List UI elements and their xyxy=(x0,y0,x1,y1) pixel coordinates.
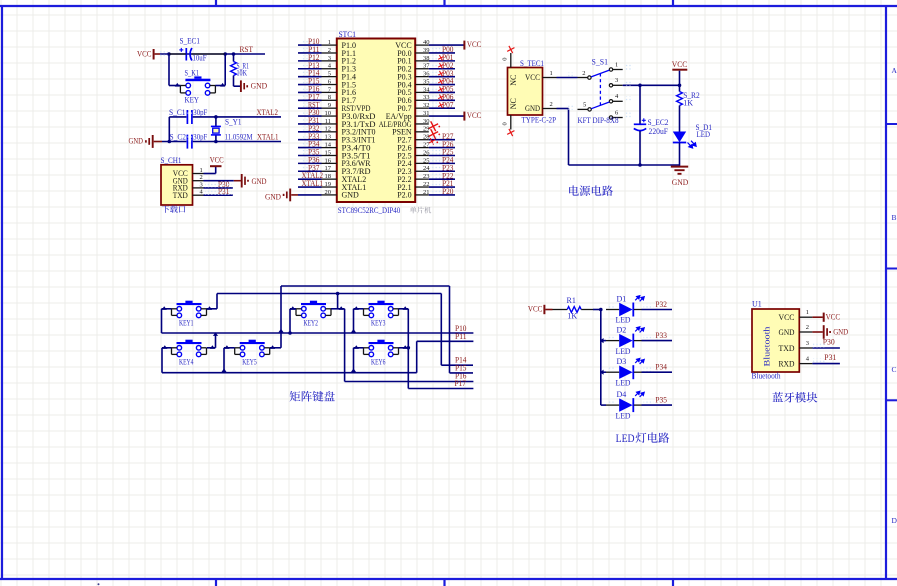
svg-text:P07: P07 xyxy=(442,100,454,109)
pin 0 stub bottom (S_TEC1) xyxy=(510,115,512,130)
svg-text:P32: P32 xyxy=(655,300,667,309)
svg-text:GND: GND xyxy=(342,191,360,200)
wire net P03 (STC1 pin 36) xyxy=(430,71,445,76)
svg-text:P31: P31 xyxy=(824,353,836,362)
pushbutton KEY4 xyxy=(177,342,202,344)
capacitor S_EC2 220uF xyxy=(639,85,641,124)
svg-text:19: 19 xyxy=(325,181,332,188)
svg-text:38: 38 xyxy=(423,55,430,62)
svg-text:S_CH1: S_CH1 xyxy=(161,156,182,165)
IC comment label (CJK) xyxy=(410,207,431,214)
svg-text:P17: P17 xyxy=(455,379,467,388)
switch lever pins 2-1 xyxy=(591,70,609,77)
wire P30 (S_CH1 pin3) xyxy=(204,187,233,189)
section label bluetooth-module (CJK) xyxy=(772,392,817,403)
svg-text:STC1: STC1 xyxy=(339,30,357,39)
svg-text:P2.0: P2.0 xyxy=(397,191,411,200)
svg-text:17: 17 xyxy=(325,165,332,172)
svg-text:12: 12 xyxy=(325,126,332,133)
wire net P15 (STC1 pin 6) xyxy=(302,79,315,84)
svg-text:GND: GND xyxy=(779,328,795,337)
pin 1 stub (S_CH1) xyxy=(193,173,204,175)
svg-text:VCC: VCC xyxy=(210,156,224,165)
pin 31 EA/Vpp (STC1 right) xyxy=(415,115,429,117)
pin 26 P2.5 (STC1 right) xyxy=(415,154,429,156)
wire LED to GND xyxy=(679,143,681,167)
svg-text:KFT DIP-8X8: KFT DIP-8X8 xyxy=(578,116,619,125)
pin 2 stub (S_CH1) xyxy=(193,180,204,182)
wire net P36 (STC1 pin 16) xyxy=(302,158,315,163)
wire net P27 (STC1 pin 28) xyxy=(430,134,445,139)
wire KEY2 left to P10 rail xyxy=(290,308,296,310)
wire net P35 (STC1 pin 15) xyxy=(302,150,315,155)
section label matrix-keyboard (CJK) xyxy=(290,391,335,402)
pin 6 stub (S_S1) xyxy=(613,117,623,119)
no-ERC marker pin 30 xyxy=(428,121,438,131)
svg-text:C: C xyxy=(892,365,897,374)
wire row2 rail riser to P11 xyxy=(416,341,418,372)
svg-text:33: 33 xyxy=(423,94,430,101)
svg-text:VCC: VCC xyxy=(137,49,152,58)
svg-text:NC: NC xyxy=(509,75,518,86)
svg-text:29: 29 xyxy=(423,126,430,133)
pin 34 P0.5 (STC1 right) xyxy=(415,91,429,93)
pin 38 P0.1 (STC1 right) xyxy=(415,60,429,62)
wire EC2 to ground rail xyxy=(639,131,641,165)
svg-text:16: 16 xyxy=(325,157,332,164)
no-ERC marker pin 35 xyxy=(438,79,444,85)
no-ERC marker pin 33 xyxy=(438,95,444,101)
svg-text:3: 3 xyxy=(615,77,618,84)
pin 3 P1.2 (STC1 left) xyxy=(322,60,337,62)
resistor R1 1K xyxy=(553,309,568,311)
wire KEY4 left to row2 rail xyxy=(162,347,172,349)
svg-text:22: 22 xyxy=(423,181,430,188)
svg-text:10K: 10K xyxy=(237,69,248,78)
svg-text:TXD: TXD xyxy=(173,191,188,200)
wire KEY3 left to P10 rail xyxy=(354,308,364,310)
svg-text:R1: R1 xyxy=(567,296,576,305)
svg-text:GND: GND xyxy=(252,177,267,186)
wire GND to caps xyxy=(162,141,186,143)
wire KEY2 right riser to rail B xyxy=(331,308,345,310)
svg-text:35: 35 xyxy=(423,78,430,85)
no-ERC marker pin 32 xyxy=(438,102,444,108)
svg-text:GND: GND xyxy=(833,328,848,337)
power port VCC (S_CH1 pin1) xyxy=(204,173,216,175)
power port GND (reset circuit) xyxy=(240,80,242,92)
svg-text:8: 8 xyxy=(328,94,331,101)
svg-text:LED: LED xyxy=(697,130,711,139)
wire S_K1 right to main xyxy=(215,85,225,87)
svg-text:15: 15 xyxy=(325,149,332,156)
svg-text:LED: LED xyxy=(616,433,635,445)
pin 22 P2.1 (STC1 right) xyxy=(415,186,429,188)
resistor S_R2 1K xyxy=(677,92,683,106)
pin 27 P2.6 (STC1 right) xyxy=(415,147,429,149)
svg-text:2: 2 xyxy=(582,70,585,77)
svg-text:2: 2 xyxy=(199,174,202,181)
wire net XTAL1 (STC1 pin 19) xyxy=(302,181,315,186)
svg-text:VCC: VCC xyxy=(826,313,841,322)
LED D2 xyxy=(601,340,606,342)
selection dot artifacts xyxy=(159,51,168,57)
power port GND (STC1 pin20) xyxy=(291,194,298,196)
pin 4 stub (S_S1) xyxy=(613,100,623,102)
wire net P32 xyxy=(644,304,654,309)
label download-port (CJK) xyxy=(162,205,186,213)
wire net P35 xyxy=(644,400,654,405)
pin 13 P3.3/INT1 (STC1 left) xyxy=(322,139,337,141)
no-ERC marker pin 37 xyxy=(438,63,444,69)
pin 35 P0.4 (STC1 right) xyxy=(415,84,429,86)
svg-text:KEY5: KEY5 xyxy=(242,357,257,366)
node junction R2 rail xyxy=(678,84,682,88)
pushbutton KEY5 xyxy=(240,342,265,344)
svg-text:32: 32 xyxy=(423,102,430,109)
wire net P30 (STC1 pin 10) xyxy=(302,110,315,115)
resistor S_R1 10K xyxy=(233,54,235,62)
svg-text:U1: U1 xyxy=(752,300,762,309)
svg-text:KEY3: KEY3 xyxy=(371,318,386,327)
wire net P10 (STC1 pin 1) xyxy=(302,40,315,45)
wire net P07 (STC1 pin 32) xyxy=(430,103,445,108)
no-ERC marker pin 29 xyxy=(428,129,438,139)
wire net P31 (STC1 pin 11) xyxy=(302,118,315,123)
pin 0 stub top (S_TEC1) xyxy=(510,53,512,68)
wire KEY4 right to P10 rail xyxy=(207,347,216,349)
wire KEY3 right to P17 riser xyxy=(399,308,409,310)
pin 11 P3.1/TxD (STC1 left) xyxy=(322,123,337,125)
svg-text:RST: RST xyxy=(240,45,254,54)
power port GND (S_CH1 pin2) xyxy=(204,180,234,182)
svg-text:P35: P35 xyxy=(655,395,667,404)
svg-text:21: 21 xyxy=(423,189,430,196)
svg-text:31: 31 xyxy=(423,110,430,117)
svg-text:GND: GND xyxy=(265,192,281,201)
wire net P31 (U1 pin4) xyxy=(812,363,840,365)
svg-text:25: 25 xyxy=(423,157,430,164)
pin 33 P0.6 (STC1 right) xyxy=(415,99,429,101)
svg-text:D: D xyxy=(892,516,897,525)
pin 2 P1.1 (STC1 left) xyxy=(322,52,337,54)
wire net P21 (STC1 pin 22) xyxy=(430,181,445,186)
svg-text:KEY2: KEY2 xyxy=(304,318,319,327)
svg-text:23: 23 xyxy=(423,173,430,180)
svg-text:D1: D1 xyxy=(617,294,627,303)
LED D4 xyxy=(601,404,606,406)
svg-text:14: 14 xyxy=(325,142,332,149)
wire S_EC1 left lead xyxy=(169,53,186,55)
wire net P04 (STC1 pin 35) xyxy=(430,79,445,84)
wire net P34 xyxy=(644,367,654,372)
wire KEY1 left to P10 rail xyxy=(162,308,172,310)
wire net P30 (U1 pin3) xyxy=(812,347,840,349)
wire P17 xyxy=(408,388,473,390)
wire rail A to KEY5 right xyxy=(280,333,282,348)
svg-text:STC89C52RC_DIP40: STC89C52RC_DIP40 xyxy=(338,206,401,215)
wire row rail B xyxy=(217,293,441,295)
power ground GND (power circuit) xyxy=(671,166,688,168)
pin 8 P1.7 (STC1 left) xyxy=(322,99,337,101)
svg-text:GND: GND xyxy=(251,81,268,90)
svg-text:RXD: RXD xyxy=(779,359,795,368)
wire net P33 (STC1 pin 13) xyxy=(302,134,315,139)
svg-text:1: 1 xyxy=(328,39,331,46)
svg-text:GND: GND xyxy=(672,178,689,187)
svg-text:XTAL1: XTAL1 xyxy=(257,133,279,142)
wire KEY6 right to P17 riser xyxy=(399,347,409,349)
pin 4 P1.3 (STC1 left) xyxy=(322,68,337,70)
svg-text:VCC: VCC xyxy=(525,73,540,82)
power port VCC (STC1 pin 40) xyxy=(429,44,464,46)
svg-text:30: 30 xyxy=(423,118,430,125)
svg-text:40: 40 xyxy=(423,39,430,46)
svg-text:LED: LED xyxy=(616,347,631,356)
svg-text:13: 13 xyxy=(325,134,332,141)
svg-text:LED: LED xyxy=(616,411,631,420)
svg-text:P11: P11 xyxy=(455,332,467,341)
svg-text:P34: P34 xyxy=(655,363,667,372)
switch linkage dashed xyxy=(599,73,601,105)
pin 19 XTAL1 (STC1 left) xyxy=(322,186,337,188)
svg-text:S_EC1: S_EC1 xyxy=(180,37,201,46)
svg-text:1: 1 xyxy=(550,70,553,77)
svg-text:S_K1: S_K1 xyxy=(185,68,200,77)
svg-text:3: 3 xyxy=(328,55,331,62)
wire XTAL2 net xyxy=(193,116,281,118)
pin 24 P2.3 (STC1 right) xyxy=(415,170,429,172)
svg-text:4: 4 xyxy=(806,356,810,363)
svg-text:11: 11 xyxy=(325,118,331,125)
wire TEC1 pin1 to switch xyxy=(557,77,578,79)
svg-text:2: 2 xyxy=(806,324,809,331)
pin 37 P0.2 (STC1 right) xyxy=(415,68,429,70)
wire S_EC1 right lead xyxy=(192,53,226,55)
wire net P20 (STC1 pin 21) xyxy=(430,189,445,194)
svg-text:NC: NC xyxy=(509,98,518,109)
svg-text:XTAL1: XTAL1 xyxy=(302,179,324,188)
svg-text:5: 5 xyxy=(328,71,331,78)
svg-text:VCC: VCC xyxy=(467,111,482,120)
pin 16 P3.6/WR (STC1 left) xyxy=(322,162,337,164)
svg-text:LED: LED xyxy=(616,378,631,387)
pushbutton KEY1 xyxy=(177,303,202,305)
svg-text:Bluetooth: Bluetooth xyxy=(762,326,772,367)
pin 30 ALE/PROG (STC1 right) xyxy=(415,123,429,125)
pin 12 P3.2/INT0 (STC1 left) xyxy=(322,131,337,133)
svg-text:10: 10 xyxy=(325,110,332,117)
svg-text:S_Y1: S_Y1 xyxy=(225,117,242,126)
LED D1 xyxy=(606,309,619,311)
wire KEY1 right to row rail xyxy=(207,308,218,310)
pin 3 stub (S_CH1) xyxy=(193,187,204,189)
svg-text:11.0592M: 11.0592M xyxy=(225,133,253,142)
wire net P11 (STC1 pin 2) xyxy=(302,47,315,52)
pin 5 P1.4 (STC1 left) xyxy=(322,76,337,78)
pin 1 VCC stub (S_TEC1) xyxy=(543,77,557,79)
wire rail A xyxy=(281,285,450,287)
node junction at S_EC1 left xyxy=(167,52,171,56)
pin 9 RST/VPD (STC1 left) xyxy=(322,107,337,109)
wire net P06 (STC1 pin 33) xyxy=(430,95,445,100)
svg-text:GND: GND xyxy=(525,104,540,113)
pin 36 P0.3 (STC1 right) xyxy=(415,76,429,78)
wire P10 rail xyxy=(162,332,474,334)
pin 14 P3.4/T0 (STC1 left) xyxy=(322,147,337,149)
wire rail B to P14 xyxy=(440,294,442,366)
pin 1 stub (S_S1) xyxy=(613,69,623,71)
svg-text:1: 1 xyxy=(615,61,618,68)
pin 20 GND (STC1 left) xyxy=(322,194,337,196)
node junction at S_EC1 right xyxy=(223,52,227,56)
pin 25 P2.4 (STC1 right) xyxy=(415,162,429,164)
wire rail A to P15 xyxy=(449,286,451,373)
pin 39 P0.0 (STC1 right) xyxy=(415,52,429,54)
wire P31 (S_CH1 pin4) xyxy=(204,194,233,196)
svg-text:30pF: 30pF xyxy=(193,108,207,117)
wire net XTAL2 (STC1 pin 18) xyxy=(302,174,315,179)
svg-text:P15: P15 xyxy=(455,363,467,372)
no-ERC marker bottom (S_TEC1) xyxy=(507,129,514,136)
wire R1 to LED bus xyxy=(581,309,593,311)
no-ERC marker pin 34 xyxy=(438,87,444,93)
wire net P00 (STC1 pin 39) xyxy=(430,47,445,52)
no-ERC marker pin 36 xyxy=(438,71,444,77)
pin 32 P0.7 (STC1 right) xyxy=(415,107,429,109)
wire switch pin3 to VCC rail xyxy=(623,84,680,86)
svg-text:20: 20 xyxy=(325,189,332,196)
svg-text:D3: D3 xyxy=(617,357,627,366)
LED S_D1 xyxy=(673,132,686,143)
pin 7 P1.6 (STC1 left) xyxy=(322,91,337,93)
wire net P16 (STC1 pin 7) xyxy=(302,87,315,92)
wire left cap branch xyxy=(168,117,170,142)
svg-text:P20: P20 xyxy=(442,187,454,196)
power port GND (U1 pin2) xyxy=(812,331,822,333)
svg-text:A: A xyxy=(892,66,897,75)
svg-text:VCC: VCC xyxy=(779,313,795,322)
svg-text:1: 1 xyxy=(199,167,202,174)
svg-text:0: 0 xyxy=(501,122,508,125)
junction wedges at button terminals xyxy=(290,306,295,310)
pin 5 stub (S_S1) xyxy=(578,108,588,110)
wire KEY2 right to P16 xyxy=(344,309,346,382)
svg-text:S_EC2: S_EC2 xyxy=(648,118,669,127)
no-ERC marker top (S_TEC1) xyxy=(507,46,514,53)
svg-text:GND: GND xyxy=(129,137,144,146)
wire R2 to LED xyxy=(679,106,681,132)
pin 3 stub (S_S1) xyxy=(613,84,623,86)
svg-text:1: 1 xyxy=(806,309,809,316)
wire TEC1 pin2 to ground rail xyxy=(557,108,569,110)
pin 15 P3.5/T1 (STC1 left) xyxy=(322,154,337,156)
svg-text:B: B xyxy=(892,213,897,222)
pin 40 VCC (STC1 right) xyxy=(415,44,429,46)
svg-text:KEY6: KEY6 xyxy=(371,357,386,366)
pin 1 P1.0 (STC1 left) xyxy=(322,44,337,46)
svg-text:30pF: 30pF xyxy=(193,133,207,142)
wire net RST (STC1 pin 9) xyxy=(302,103,315,108)
svg-text:KEY: KEY xyxy=(185,95,200,104)
pin 29 PSEN (STC1 right) xyxy=(415,131,429,133)
svg-text:TYPE-C-2P: TYPE-C-2P xyxy=(522,116,557,125)
wire net P22 (STC1 pin 23) xyxy=(430,174,445,179)
svg-text:KEY4: KEY4 xyxy=(179,357,194,366)
node junction EC2 bottom xyxy=(638,163,642,167)
wire net P13 (STC1 pin 4) xyxy=(302,63,315,68)
wire net P12 (STC1 pin 3) xyxy=(302,55,315,60)
wire KEY5 left to row2 rail xyxy=(224,347,235,349)
svg-text:TXD: TXD xyxy=(779,344,795,353)
svg-text:2: 2 xyxy=(328,47,331,54)
wire KEY6 left to row2 rail xyxy=(354,347,364,349)
wire net P01 (STC1 pin 38) xyxy=(430,55,445,60)
wire net P05 (STC1 pin 34) xyxy=(430,87,445,92)
wire rail A riser from P10 xyxy=(280,286,282,333)
node junction LED bus top xyxy=(599,308,603,312)
svg-text:28: 28 xyxy=(423,134,430,141)
LED D3 xyxy=(601,371,606,373)
power port VCC (U1 pin1) xyxy=(812,316,822,318)
svg-text:39: 39 xyxy=(423,47,430,54)
svg-text:P33: P33 xyxy=(655,331,667,340)
svg-text:D4: D4 xyxy=(617,390,627,399)
pin 18 XTAL2 (STC1 left) xyxy=(322,178,337,180)
pin 4 stub (S_CH1) xyxy=(193,194,204,196)
svg-text:S_S1: S_S1 xyxy=(592,57,609,66)
svg-text:D2: D2 xyxy=(617,326,627,335)
pin 21 P2.0 (STC1 right) xyxy=(415,194,429,196)
wire S_R1 to GND xyxy=(233,76,235,87)
pin 2 GND stub (S_TEC1) xyxy=(543,108,557,110)
svg-text:VCC: VCC xyxy=(672,60,688,69)
wire net P26 (STC1 pin 27) xyxy=(430,142,445,147)
svg-text:0: 0 xyxy=(501,58,508,61)
svg-text:4: 4 xyxy=(615,93,619,100)
wire LED bus xyxy=(600,310,602,406)
svg-text:3: 3 xyxy=(199,181,202,188)
svg-text:KEY1: KEY1 xyxy=(179,318,194,327)
svg-text:XTAL2: XTAL2 xyxy=(257,108,279,117)
svg-text:9: 9 xyxy=(328,102,331,109)
no-ERC marker pin 28 xyxy=(429,138,436,145)
zone number remnant bottom xyxy=(98,583,100,585)
wire net P17 (STC1 pin 8) xyxy=(302,95,315,100)
zone divider ticks right margin xyxy=(886,124,897,400)
wire net P32 (STC1 pin 12) xyxy=(302,126,315,131)
svg-text:3: 3 xyxy=(806,340,809,347)
wire XTAL1 net xyxy=(193,141,281,143)
wire net P37 (STC1 pin 17) xyxy=(302,166,315,171)
svg-text:18: 18 xyxy=(325,173,332,180)
svg-text:VCC: VCC xyxy=(528,304,543,313)
pin 28 P2.7 (STC1 right) xyxy=(415,139,429,141)
svg-text:220uF: 220uF xyxy=(649,127,669,136)
wire net P33 xyxy=(644,335,654,340)
section label power-circuit (CJK) xyxy=(569,185,613,195)
svg-text:1K: 1K xyxy=(567,311,577,320)
pin 10 P3.0/RxD (STC1 left) xyxy=(322,115,337,117)
svg-text:5: 5 xyxy=(583,102,586,109)
power port VCC (STC1 pin 31) xyxy=(429,115,464,117)
wire net P34 (STC1 pin 14) xyxy=(302,142,315,147)
node junction EC2 branch xyxy=(638,84,642,88)
pushbutton KEY6 xyxy=(369,342,394,344)
node junction left xtal bottom xyxy=(168,140,172,144)
wire net P14 (STC1 pin 5) xyxy=(302,71,315,76)
node junction at S_R1 top xyxy=(232,52,236,56)
